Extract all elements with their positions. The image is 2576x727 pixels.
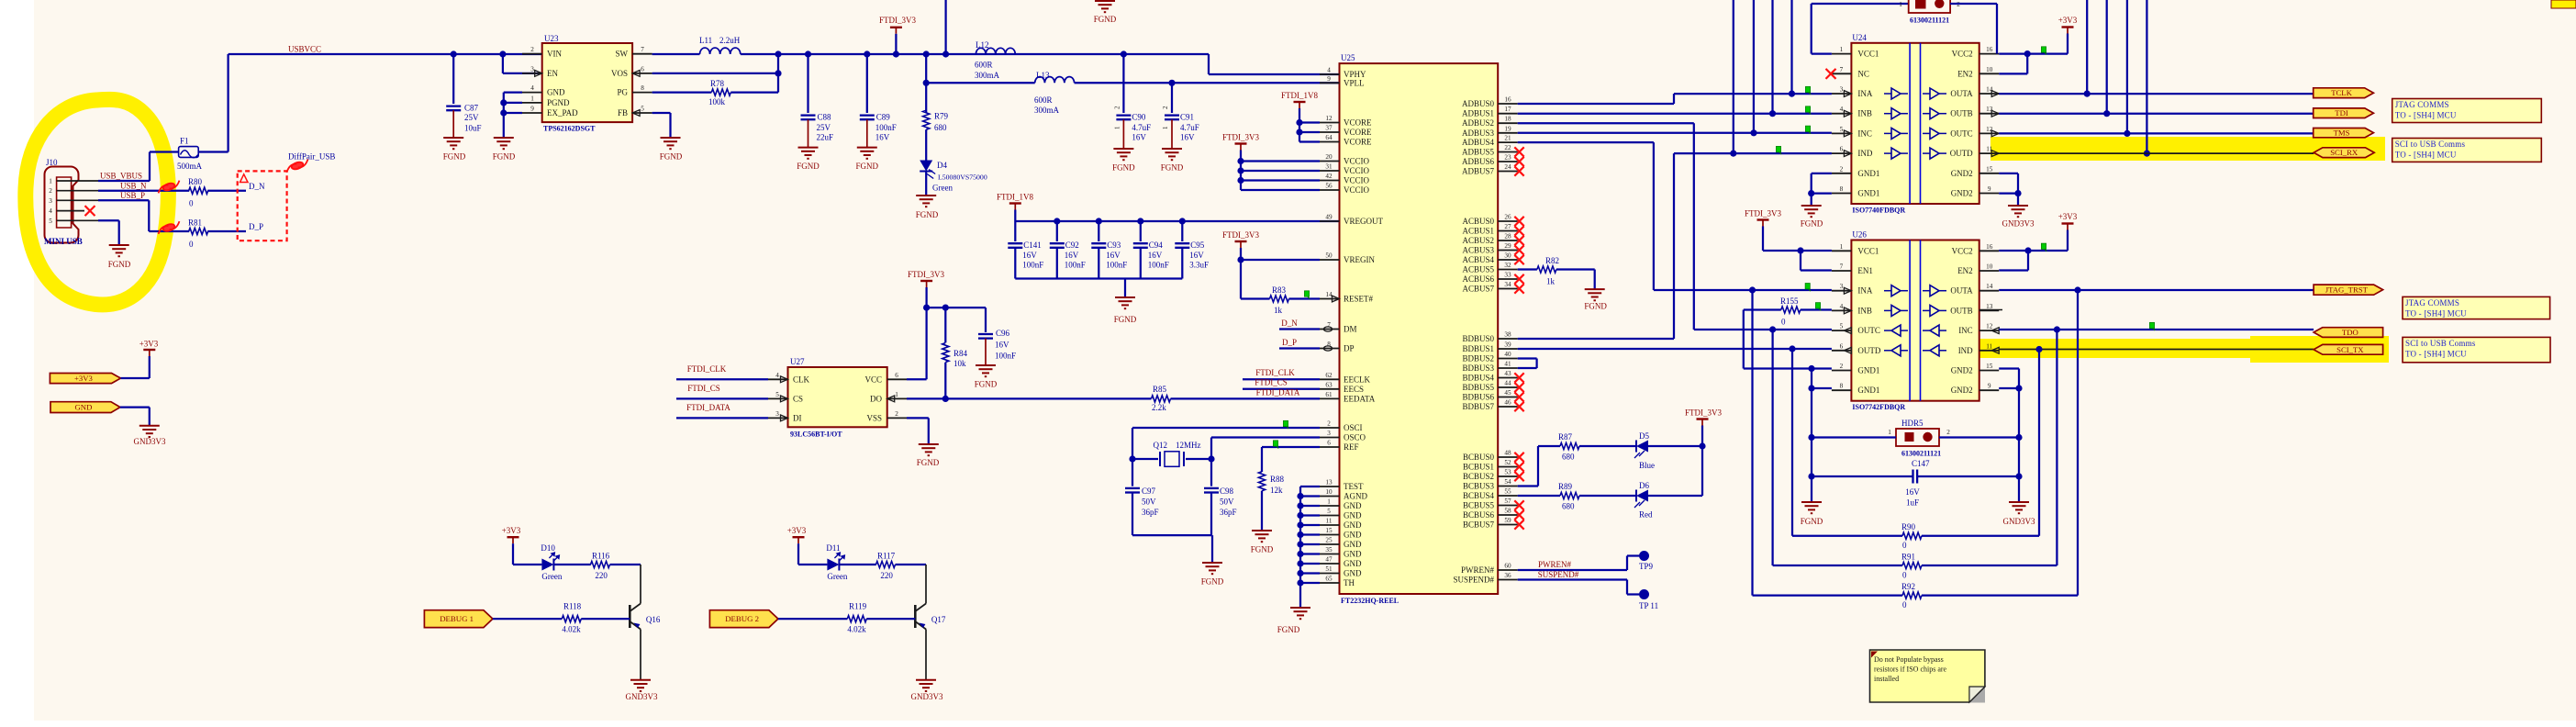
svg-text:2: 2 bbox=[49, 187, 52, 195]
svg-text:ADBUS0: ADBUS0 bbox=[1462, 99, 1495, 108]
svg-text:8: 8 bbox=[641, 84, 644, 92]
svg-text:GND1: GND1 bbox=[1857, 366, 1879, 375]
svg-text:TMS: TMS bbox=[2334, 129, 2350, 138]
svg-text:SUSPEND#: SUSPEND# bbox=[1538, 570, 1579, 579]
svg-text:VPLL: VPLL bbox=[1344, 78, 1365, 87]
svg-text:TP 11: TP 11 bbox=[1639, 601, 1658, 610]
svg-text:12: 12 bbox=[1325, 115, 1333, 122]
svg-text:16V: 16V bbox=[1132, 133, 1146, 142]
svg-text:22uF: 22uF bbox=[817, 133, 834, 142]
svg-text:EN1: EN1 bbox=[1857, 266, 1873, 275]
svg-text:63: 63 bbox=[1325, 381, 1333, 388]
svg-text:ADBUS7: ADBUS7 bbox=[1462, 167, 1495, 176]
svg-text:8: 8 bbox=[1840, 185, 1844, 193]
svg-text:EN2: EN2 bbox=[1957, 69, 1973, 78]
svg-text:BCBUS7: BCBUS7 bbox=[1463, 520, 1495, 530]
svg-text:FTDI_DATA: FTDI_DATA bbox=[1256, 388, 1300, 397]
svg-text:1: 1 bbox=[1327, 498, 1331, 506]
svg-text:VCCIO: VCCIO bbox=[1344, 157, 1370, 166]
svg-text:41: 41 bbox=[1504, 361, 1511, 368]
svg-text:Green: Green bbox=[541, 572, 562, 581]
svg-text:ACBUS0: ACBUS0 bbox=[1462, 217, 1494, 226]
svg-text:D11: D11 bbox=[826, 543, 840, 553]
svg-text:2: 2 bbox=[1840, 165, 1844, 173]
svg-text:9: 9 bbox=[1988, 185, 1991, 193]
svg-text:EX_PAD: EX_PAD bbox=[547, 108, 578, 117]
svg-text:0: 0 bbox=[1781, 318, 1786, 327]
svg-text:ADBUS5: ADBUS5 bbox=[1462, 148, 1495, 157]
svg-text:INB: INB bbox=[1857, 109, 1872, 118]
svg-text:5: 5 bbox=[641, 106, 644, 113]
svg-text:51: 51 bbox=[1325, 565, 1333, 573]
svg-text:5: 5 bbox=[1840, 323, 1844, 330]
svg-text:0: 0 bbox=[189, 240, 194, 249]
svg-text:ADBUS4: ADBUS4 bbox=[1462, 138, 1495, 147]
svg-text:ACBUS5: ACBUS5 bbox=[1462, 265, 1494, 274]
svg-text:REF: REF bbox=[1344, 442, 1359, 452]
svg-text:16V: 16V bbox=[995, 341, 1009, 350]
svg-text:VCORE: VCORE bbox=[1344, 128, 1372, 137]
svg-text:2: 2 bbox=[895, 410, 898, 418]
svg-text:SUSPEND#: SUSPEND# bbox=[1453, 576, 1494, 585]
svg-text:FTDI_CLK: FTDI_CLK bbox=[1255, 368, 1295, 377]
svg-text:SCI_RX: SCI_RX bbox=[2330, 148, 2359, 157]
svg-text:R78: R78 bbox=[710, 79, 725, 88]
svg-text:GND: GND bbox=[1344, 531, 1362, 540]
svg-text:TO - [SH4] MCU: TO - [SH4] MCU bbox=[2405, 308, 2467, 318]
svg-text:PG: PG bbox=[617, 88, 628, 97]
svg-text:BDBUS0: BDBUS0 bbox=[1462, 334, 1494, 343]
svg-text:5: 5 bbox=[775, 391, 779, 398]
svg-text:D5: D5 bbox=[1639, 431, 1649, 441]
svg-text:25V: 25V bbox=[464, 113, 479, 122]
svg-text:10k: 10k bbox=[953, 359, 966, 368]
svg-text:680: 680 bbox=[1562, 453, 1575, 462]
svg-text:6: 6 bbox=[641, 65, 644, 73]
svg-text:6: 6 bbox=[1840, 342, 1844, 350]
svg-text:OSCO: OSCO bbox=[1344, 433, 1366, 442]
svg-text:15: 15 bbox=[1986, 165, 1993, 173]
svg-text:33: 33 bbox=[1504, 272, 1511, 279]
svg-text:GND3V3: GND3V3 bbox=[911, 692, 943, 701]
svg-text:100nF: 100nF bbox=[1106, 261, 1127, 270]
svg-text:40: 40 bbox=[1504, 351, 1511, 358]
svg-text:R87: R87 bbox=[1558, 432, 1573, 442]
svg-text:VREGIN: VREGIN bbox=[1344, 255, 1375, 264]
svg-text:BDBUS5: BDBUS5 bbox=[1462, 383, 1494, 392]
svg-text:SW: SW bbox=[616, 50, 629, 59]
svg-text:OUTC: OUTC bbox=[1857, 326, 1879, 335]
svg-text:TPS62162DSGT: TPS62162DSGT bbox=[543, 125, 596, 133]
svg-text:C90: C90 bbox=[1132, 113, 1146, 122]
svg-text:2: 2 bbox=[1113, 106, 1121, 109]
svg-text:FGND: FGND bbox=[916, 210, 939, 219]
svg-text:43: 43 bbox=[1504, 370, 1511, 377]
svg-text:JTAG_TRST: JTAG_TRST bbox=[2325, 285, 2369, 295]
svg-text:16V: 16V bbox=[1180, 133, 1195, 142]
svg-text:16V: 16V bbox=[1065, 251, 1079, 260]
svg-text:31: 31 bbox=[1325, 163, 1333, 171]
svg-text:IND: IND bbox=[1857, 149, 1872, 158]
svg-text:FGND: FGND bbox=[797, 162, 820, 171]
svg-text:10: 10 bbox=[1325, 488, 1333, 496]
svg-text:R85: R85 bbox=[1153, 385, 1167, 394]
svg-text:FGND: FGND bbox=[108, 260, 131, 269]
svg-text:2.2k: 2.2k bbox=[1152, 403, 1166, 412]
svg-text:FGND: FGND bbox=[1801, 517, 1823, 526]
svg-text:ACBUS2: ACBUS2 bbox=[1462, 236, 1494, 245]
svg-text:D10: D10 bbox=[541, 543, 555, 553]
svg-text:SCI_TX: SCI_TX bbox=[2336, 345, 2364, 354]
svg-text:28: 28 bbox=[1504, 233, 1511, 240]
svg-text:58: 58 bbox=[1504, 508, 1511, 515]
svg-text:44: 44 bbox=[1504, 380, 1511, 387]
svg-text:FGND: FGND bbox=[917, 458, 940, 467]
svg-text:FTDI_DATA: FTDI_DATA bbox=[686, 403, 730, 412]
svg-text:8: 8 bbox=[1327, 341, 1331, 348]
svg-text:FTDI_1V8: FTDI_1V8 bbox=[1281, 91, 1318, 100]
svg-text:ACBUS3: ACBUS3 bbox=[1462, 246, 1494, 255]
svg-text:GND: GND bbox=[1344, 540, 1362, 549]
svg-text:BCBUS3: BCBUS3 bbox=[1463, 482, 1495, 491]
svg-text:U26: U26 bbox=[1852, 230, 1867, 240]
svg-text:OUTD: OUTD bbox=[1950, 149, 1973, 158]
svg-text:11: 11 bbox=[1986, 342, 1992, 350]
svg-text:36pF: 36pF bbox=[1220, 508, 1237, 517]
svg-text:FTDI_3V3: FTDI_3V3 bbox=[1685, 408, 1722, 418]
svg-text:4: 4 bbox=[1327, 67, 1331, 74]
svg-text:220: 220 bbox=[880, 571, 893, 580]
svg-text:GND: GND bbox=[1344, 520, 1362, 530]
svg-text:VCCIO: VCCIO bbox=[1344, 185, 1370, 195]
svg-text:FGND: FGND bbox=[1161, 163, 1184, 173]
svg-text:R90: R90 bbox=[1901, 522, 1916, 531]
svg-text:2: 2 bbox=[1327, 420, 1331, 428]
svg-text:FGND: FGND bbox=[660, 152, 683, 162]
svg-text:U23: U23 bbox=[544, 34, 559, 43]
svg-text:IND: IND bbox=[1958, 346, 1973, 355]
svg-text:4.02k: 4.02k bbox=[847, 625, 866, 634]
svg-text:R92: R92 bbox=[1901, 582, 1915, 591]
svg-text:Green: Green bbox=[827, 572, 847, 581]
svg-text:BCBUS2: BCBUS2 bbox=[1463, 472, 1494, 481]
svg-text:SCI to USB Comms: SCI to USB Comms bbox=[2395, 140, 2466, 149]
svg-text:resistors if ISO chips are: resistors if ISO chips are bbox=[1874, 665, 1947, 674]
svg-text:ISO7742FDBQR: ISO7742FDBQR bbox=[1852, 403, 1905, 411]
svg-text:4: 4 bbox=[775, 372, 779, 379]
svg-text:INA: INA bbox=[1857, 89, 1872, 98]
svg-text:4.7uF: 4.7uF bbox=[1180, 123, 1199, 132]
svg-text:2: 2 bbox=[1840, 363, 1844, 370]
svg-text:GND: GND bbox=[75, 403, 93, 412]
svg-text:TO - [SH4] MCU: TO - [SH4] MCU bbox=[2395, 111, 2457, 120]
svg-text:ADBUS2: ADBUS2 bbox=[1462, 118, 1494, 128]
svg-text:16: 16 bbox=[1986, 243, 1993, 251]
svg-text:R84: R84 bbox=[953, 349, 968, 358]
svg-text:0: 0 bbox=[1902, 571, 1907, 580]
svg-text:Do not Populate bypass: Do not Populate bypass bbox=[1874, 655, 1944, 664]
svg-text:VIN: VIN bbox=[547, 50, 562, 59]
svg-text:1: 1 bbox=[1840, 46, 1844, 53]
svg-text:4: 4 bbox=[1840, 106, 1844, 113]
svg-text:680: 680 bbox=[1562, 502, 1575, 511]
svg-text:21: 21 bbox=[1504, 135, 1511, 142]
svg-text:FGND: FGND bbox=[1251, 545, 1274, 554]
svg-text:+3V3: +3V3 bbox=[502, 526, 521, 535]
svg-text:ISO7740FDBQR: ISO7740FDBQR bbox=[1852, 206, 1905, 214]
svg-text:DI: DI bbox=[793, 413, 802, 422]
svg-text:16V: 16V bbox=[1148, 251, 1163, 260]
svg-text:DO: DO bbox=[870, 394, 882, 403]
svg-text:220: 220 bbox=[595, 571, 608, 580]
svg-text:RESET#: RESET# bbox=[1344, 295, 1374, 304]
svg-text:GND: GND bbox=[1344, 501, 1362, 510]
svg-text:680: 680 bbox=[934, 123, 947, 132]
svg-text:3: 3 bbox=[49, 197, 52, 205]
svg-text:AGND: AGND bbox=[1344, 492, 1367, 501]
svg-text:C97: C97 bbox=[1142, 487, 1156, 496]
svg-text:GND1: GND1 bbox=[1857, 169, 1879, 178]
svg-text:TP9: TP9 bbox=[1639, 562, 1654, 571]
svg-text:BDBUS4: BDBUS4 bbox=[1462, 374, 1494, 383]
svg-text:OUTB: OUTB bbox=[1950, 109, 1973, 118]
svg-text:GND: GND bbox=[1344, 559, 1362, 568]
svg-text:ADBUS6: ADBUS6 bbox=[1462, 157, 1495, 166]
svg-text:DiffPair_USB: DiffPair_USB bbox=[288, 152, 335, 162]
svg-text:C93: C93 bbox=[1107, 240, 1121, 250]
svg-text:OUTC: OUTC bbox=[1950, 129, 1973, 138]
svg-text:Q17: Q17 bbox=[931, 615, 946, 624]
svg-text:CLK: CLK bbox=[793, 375, 810, 384]
svg-text:GND3V3: GND3V3 bbox=[134, 437, 166, 446]
svg-text:13: 13 bbox=[1986, 303, 1993, 310]
svg-text:C141: C141 bbox=[1023, 240, 1042, 250]
svg-text:1k: 1k bbox=[1274, 306, 1283, 315]
svg-text:47: 47 bbox=[1325, 556, 1333, 564]
svg-text:300mA: 300mA bbox=[1034, 106, 1060, 115]
svg-text:4.02k: 4.02k bbox=[562, 625, 581, 634]
svg-text:INC: INC bbox=[1958, 326, 1973, 335]
svg-text:GND3V3: GND3V3 bbox=[626, 692, 658, 701]
svg-text:BCBUS6: BCBUS6 bbox=[1463, 510, 1495, 520]
svg-text:FGND: FGND bbox=[1112, 163, 1135, 173]
svg-text:PWREN#: PWREN# bbox=[1538, 560, 1572, 569]
svg-text:VCC1: VCC1 bbox=[1857, 50, 1879, 59]
svg-text:R116: R116 bbox=[592, 552, 610, 561]
svg-text:EEDATA: EEDATA bbox=[1344, 394, 1376, 403]
svg-text:VCC2: VCC2 bbox=[1952, 50, 1973, 59]
svg-text:+3V3: +3V3 bbox=[2058, 212, 2078, 221]
svg-text:+3V3: +3V3 bbox=[787, 526, 807, 535]
svg-text:30: 30 bbox=[1504, 252, 1511, 260]
svg-text:5: 5 bbox=[1327, 508, 1331, 515]
svg-text:L11: L11 bbox=[699, 36, 712, 45]
svg-text:VCC: VCC bbox=[864, 375, 882, 384]
svg-text:C147: C147 bbox=[1912, 459, 1930, 468]
svg-text:ADBUS3: ADBUS3 bbox=[1462, 129, 1495, 138]
svg-text:4: 4 bbox=[1840, 303, 1844, 310]
svg-text:16V: 16V bbox=[1905, 487, 1920, 497]
svg-text:R83: R83 bbox=[1272, 285, 1287, 295]
svg-text:GND2: GND2 bbox=[1951, 386, 1973, 395]
svg-text:61300211121: 61300211121 bbox=[1910, 17, 1949, 25]
svg-text:93LC56BT-I/OT: 93LC56BT-I/OT bbox=[790, 431, 842, 439]
svg-text:U27: U27 bbox=[790, 357, 805, 366]
svg-text:EN2: EN2 bbox=[1957, 266, 1973, 275]
svg-text:65: 65 bbox=[1325, 576, 1333, 583]
svg-text:installed: installed bbox=[1874, 675, 1899, 683]
svg-text:TEST: TEST bbox=[1344, 482, 1364, 491]
svg-text:OUTD: OUTD bbox=[1857, 346, 1880, 355]
svg-text:USBVCC: USBVCC bbox=[288, 45, 321, 54]
svg-text:FGND: FGND bbox=[1114, 315, 1137, 324]
svg-text:R79: R79 bbox=[934, 112, 949, 121]
svg-text:1: 1 bbox=[1113, 126, 1121, 129]
svg-text:100k: 100k bbox=[708, 97, 726, 106]
svg-text:BDBUS7: BDBUS7 bbox=[1462, 402, 1494, 411]
svg-text:FTDI_CLK: FTDI_CLK bbox=[687, 364, 727, 374]
svg-text:6: 6 bbox=[1327, 440, 1331, 447]
svg-text:FGND: FGND bbox=[493, 152, 516, 162]
svg-text:+3V3: +3V3 bbox=[74, 374, 93, 383]
svg-text:FTDI_3V3: FTDI_3V3 bbox=[908, 270, 944, 279]
svg-text:37: 37 bbox=[1325, 125, 1333, 132]
svg-text:D_P: D_P bbox=[1282, 338, 1297, 347]
svg-text:3.3uF: 3.3uF bbox=[1189, 261, 1209, 270]
svg-text:500mA: 500mA bbox=[177, 162, 203, 171]
svg-text:TH: TH bbox=[1344, 578, 1355, 587]
svg-text:18: 18 bbox=[1504, 116, 1511, 123]
svg-text:CS: CS bbox=[793, 394, 803, 403]
svg-text:Q16: Q16 bbox=[646, 615, 661, 624]
svg-text:2.2uH: 2.2uH bbox=[719, 36, 741, 45]
svg-text:0: 0 bbox=[189, 199, 194, 208]
svg-text:9: 9 bbox=[1988, 383, 1991, 390]
svg-text:4: 4 bbox=[49, 207, 52, 215]
svg-text:BCBUS4: BCBUS4 bbox=[1463, 491, 1495, 500]
svg-text:PGND: PGND bbox=[547, 98, 570, 107]
svg-text:1: 1 bbox=[49, 178, 52, 185]
svg-text:D_P: D_P bbox=[249, 222, 263, 231]
svg-text:FTDI_3V3: FTDI_3V3 bbox=[1222, 133, 1259, 142]
svg-text:100nF: 100nF bbox=[1065, 261, 1086, 270]
svg-text:55: 55 bbox=[1504, 488, 1511, 496]
svg-text:GND1: GND1 bbox=[1857, 386, 1879, 395]
svg-text:BCBUS1: BCBUS1 bbox=[1463, 463, 1494, 472]
svg-text:FT2232HQ-REEL: FT2232HQ-REEL bbox=[1341, 597, 1399, 605]
svg-text:GND2: GND2 bbox=[1951, 189, 1973, 198]
svg-text:FGND: FGND bbox=[975, 380, 998, 389]
svg-text:46: 46 bbox=[1504, 399, 1511, 407]
svg-text:R80: R80 bbox=[188, 177, 203, 186]
svg-text:ACBUS1: ACBUS1 bbox=[1462, 227, 1494, 236]
svg-text:8: 8 bbox=[1840, 383, 1844, 390]
svg-text:36: 36 bbox=[1504, 572, 1511, 579]
svg-text:OUTB: OUTB bbox=[1950, 306, 1973, 315]
svg-text:R89: R89 bbox=[1558, 482, 1573, 491]
svg-text:USB_VBUS: USB_VBUS bbox=[100, 172, 142, 181]
svg-text:BCBUS0: BCBUS0 bbox=[1463, 453, 1495, 462]
svg-text:57: 57 bbox=[1504, 498, 1511, 505]
svg-text:D4: D4 bbox=[937, 161, 947, 170]
svg-text:2: 2 bbox=[1162, 106, 1169, 109]
svg-text:GND2: GND2 bbox=[1951, 366, 1973, 375]
svg-text:VCCIO: VCCIO bbox=[1344, 176, 1370, 185]
svg-text:6: 6 bbox=[1840, 146, 1844, 153]
svg-text:3: 3 bbox=[1840, 86, 1844, 94]
svg-text:GND3V3: GND3V3 bbox=[2002, 219, 2035, 229]
svg-text:+3V3: +3V3 bbox=[139, 340, 159, 349]
svg-text:DM: DM bbox=[1344, 325, 1357, 334]
svg-text:OUTA: OUTA bbox=[1950, 89, 1973, 98]
svg-text:C91: C91 bbox=[1180, 113, 1194, 122]
svg-text:1k: 1k bbox=[1546, 277, 1556, 286]
svg-text:U24: U24 bbox=[1852, 33, 1867, 42]
svg-text:FTDI_3V3: FTDI_3V3 bbox=[1222, 230, 1259, 240]
svg-text:12k: 12k bbox=[1270, 486, 1283, 495]
svg-text:MINI USB: MINI USB bbox=[44, 237, 83, 246]
svg-text:61: 61 bbox=[1325, 391, 1333, 398]
svg-text:BDBUS2: BDBUS2 bbox=[1462, 354, 1494, 363]
svg-text:C96: C96 bbox=[996, 329, 1010, 338]
svg-text:7: 7 bbox=[1327, 321, 1331, 329]
svg-text:R118: R118 bbox=[563, 602, 582, 611]
svg-text:100nF: 100nF bbox=[1148, 261, 1169, 270]
svg-text:15: 15 bbox=[1986, 363, 1993, 370]
svg-text:32: 32 bbox=[1504, 262, 1511, 269]
svg-text:JTAG COMMS: JTAG COMMS bbox=[2395, 100, 2449, 109]
svg-text:BDBUS6: BDBUS6 bbox=[1462, 393, 1494, 402]
svg-text:56: 56 bbox=[1325, 183, 1333, 190]
svg-text:F1: F1 bbox=[180, 137, 189, 146]
svg-text:Blue: Blue bbox=[1639, 461, 1655, 470]
svg-text:VCORE: VCORE bbox=[1344, 138, 1372, 147]
svg-text:+3V3: +3V3 bbox=[2058, 16, 2078, 25]
svg-text:ACBUS7: ACBUS7 bbox=[1462, 285, 1494, 294]
svg-text:62: 62 bbox=[1325, 372, 1333, 379]
svg-text:3: 3 bbox=[1840, 283, 1844, 290]
svg-text:6: 6 bbox=[895, 372, 898, 379]
svg-text:50V: 50V bbox=[1220, 498, 1234, 507]
svg-text:TDI: TDI bbox=[2335, 108, 2348, 117]
svg-text:10: 10 bbox=[1986, 66, 1993, 73]
svg-text:16: 16 bbox=[1986, 46, 1993, 53]
svg-text:11: 11 bbox=[1326, 518, 1333, 525]
svg-text:42: 42 bbox=[1325, 173, 1333, 180]
svg-text:TCLK: TCLK bbox=[2331, 88, 2352, 97]
svg-text:16V: 16V bbox=[1022, 251, 1037, 260]
svg-text:4: 4 bbox=[530, 84, 534, 92]
svg-text:50: 50 bbox=[1325, 252, 1333, 260]
svg-text:BDBUS3: BDBUS3 bbox=[1462, 363, 1494, 373]
svg-text:D_N: D_N bbox=[1281, 319, 1298, 328]
svg-text:ACBUS4: ACBUS4 bbox=[1462, 255, 1494, 264]
svg-text:DEBUG 2: DEBUG 2 bbox=[725, 614, 759, 623]
svg-text:0: 0 bbox=[1902, 541, 1907, 550]
svg-text:C87: C87 bbox=[464, 104, 479, 113]
svg-text:12MHz: 12MHz bbox=[1176, 441, 1201, 450]
svg-text:100nF: 100nF bbox=[995, 352, 1016, 361]
svg-text:0: 0 bbox=[1902, 600, 1907, 610]
svg-text:27: 27 bbox=[1504, 223, 1511, 230]
svg-text:53: 53 bbox=[1504, 469, 1511, 476]
svg-text:1: 1 bbox=[1840, 243, 1844, 251]
svg-text:C98: C98 bbox=[1220, 487, 1234, 496]
svg-text:FGND: FGND bbox=[1277, 625, 1300, 634]
svg-text:24: 24 bbox=[1504, 163, 1511, 171]
svg-text:BDBUS1: BDBUS1 bbox=[1462, 344, 1494, 353]
svg-text:2: 2 bbox=[530, 46, 534, 53]
